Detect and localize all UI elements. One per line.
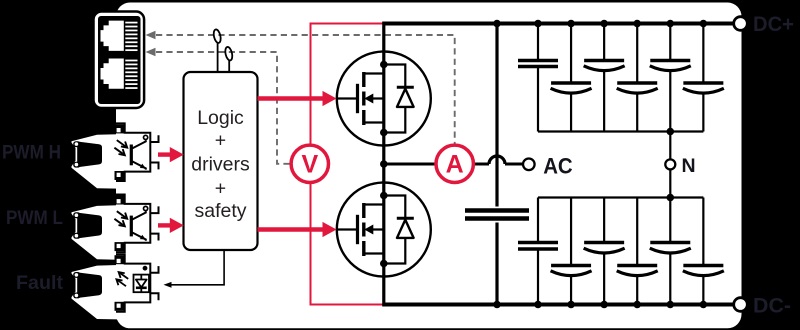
svg-text:+: + [215,130,226,152]
svg-text:DC+: DC+ [753,13,794,36]
svg-text:PWM L: PWM L [6,208,63,229]
svg-text:PWM H: PWM H [2,143,61,164]
svg-text:+: + [215,178,226,200]
svg-text:AC: AC [543,154,573,179]
svg-text:safety: safety [194,200,246,222]
svg-text:DC-: DC- [753,295,791,318]
svg-text:A: A [446,151,464,179]
svg-text:N: N [682,155,696,177]
svg-text:Fault: Fault [16,273,64,294]
svg-text:drivers: drivers [191,154,250,176]
svg-text:V: V [301,151,318,179]
svg-text:Logic: Logic [197,107,244,129]
